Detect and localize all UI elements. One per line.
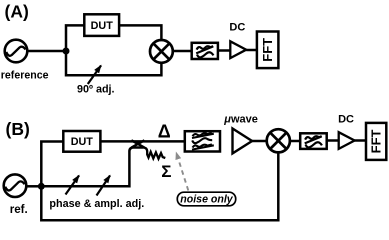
svg-text:μwave: μwave — [223, 114, 258, 126]
node junction (A) — [63, 48, 70, 55]
svg-text:reference: reference — [1, 69, 49, 81]
DUT box (B) — [63, 131, 100, 152]
svg-text:FFT: FFT — [260, 38, 275, 62]
wire filter to amp (A) — [218, 49, 230, 52]
svg-text:DC: DC — [229, 22, 245, 34]
svg-text:FFT: FFT — [369, 129, 384, 153]
hybrid combiner X (B) — [131, 140, 144, 147]
wire node down and to mixer bottom (A) — [66, 51, 161, 75]
wire osc to node (A) — [27, 50, 66, 53]
wire mixer to filter (A) — [173, 50, 192, 53]
wire amp to FFT (B) — [355, 139, 366, 142]
svg-text:Δ: Δ — [158, 121, 171, 141]
svg-text:90º adj.: 90º adj. — [77, 83, 115, 95]
oscillator ref (B) — [4, 174, 27, 197]
bandpass filter (B) — [185, 131, 220, 151]
lowpass filter (A) — [192, 43, 218, 59]
wire node up to DUT (B) — [41, 142, 63, 187]
mixer (B) — [267, 129, 290, 152]
amplifier uwave (B) — [233, 129, 253, 154]
wire osc to node (B) — [26, 185, 41, 188]
svg-text:DUT: DUT — [91, 20, 114, 32]
wire DUT to filter through hybrid (B) — [100, 140, 184, 143]
svg-text:DC: DC — [338, 113, 354, 125]
DUT box (A) — [84, 14, 119, 36]
wire filter2 to amp DC (B) — [327, 139, 339, 142]
arrow phase adj 2 (B) — [97, 176, 111, 196]
wire mid branch phase ampl path (B) — [41, 148, 143, 187]
sigma termination resistor (B) — [143, 148, 165, 159]
amplifier DC (B) — [339, 132, 355, 149]
svg-text:noise only: noise only — [180, 194, 233, 206]
wire amp to FFT (A) — [246, 49, 257, 52]
wire node up to DUT (A) — [66, 25, 84, 51]
svg-text:(B): (B) — [6, 119, 30, 139]
wire amp to mixer (B) — [252, 140, 267, 143]
svg-text:ref.: ref. — [10, 203, 28, 216]
arrow phase adj 1 (B) — [66, 176, 80, 195]
svg-text:phase & ampl. adj.: phase & ampl. adj. — [49, 198, 144, 210]
wire mixer LO bottom rail (B) — [41, 152, 278, 220]
wire DUT to mixer top (A) — [119, 25, 161, 40]
FFT box (A) — [257, 32, 279, 69]
wire mixer to filter2 (B) — [290, 140, 300, 143]
svg-text:DUT: DUT — [71, 136, 94, 148]
svg-text:Σ: Σ — [161, 162, 171, 181]
noise only callout bubble — [177, 192, 235, 206]
arrow 90deg adjust (A) — [88, 66, 101, 85]
FFT box (B) — [366, 123, 386, 160]
mixer (A) — [150, 40, 173, 63]
node junction (B) — [38, 183, 45, 190]
dashed arrow noise to filter — [176, 153, 188, 191]
svg-text:(A): (A) — [5, 2, 29, 22]
oscillator reference (A) — [5, 40, 28, 63]
amplifier DC (A) — [230, 41, 246, 58]
lowpass filter2 (B) — [300, 133, 327, 149]
